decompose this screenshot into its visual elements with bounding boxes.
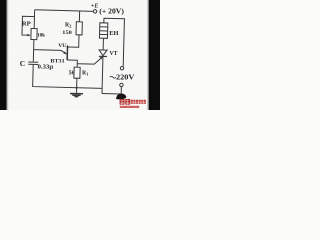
gate arrowhead <box>100 56 103 59</box>
wire RP wiper loop <box>22 16 34 35</box>
svg-text:C: C <box>20 59 25 68</box>
wire UJT B1 to R1/gate node <box>67 60 77 64</box>
terminal A ~220V upper <box>120 66 123 69</box>
resistor R2 top lead <box>78 11 80 22</box>
svg-text:VU1: VU1 <box>58 43 68 49</box>
svg-text:+E: +E <box>91 4 98 10</box>
svg-text:RP: RP <box>22 21 31 28</box>
wire RP bottom lead to node <box>32 40 35 62</box>
resistor R2 <box>76 22 82 35</box>
RP wiper arrowhead <box>27 34 30 36</box>
svg-text:56: 56 <box>69 71 75 77</box>
svg-text:10k: 10k <box>37 33 45 39</box>
thyristor VT cathode bar <box>99 55 107 57</box>
wire thyristor cathode down <box>101 56 104 93</box>
wire RP top lead <box>33 10 35 29</box>
svg-text:220V: 220V <box>116 74 134 82</box>
svg-text:R2: R2 <box>65 22 71 28</box>
capacitor C plates <box>28 62 38 65</box>
resistor R1 bottom lead <box>76 78 78 87</box>
thyristor VT triangle <box>99 50 107 56</box>
wire top rail +E <box>35 10 94 12</box>
resistor R1 top lead <box>76 64 78 67</box>
wire gate to thyristor <box>77 57 102 65</box>
wire C bottom to ground rail corner <box>33 64 103 88</box>
UJT VU base bar <box>66 46 68 60</box>
left black border bar <box>0 0 7 110</box>
terminal +E <box>93 10 96 13</box>
resistor R1 <box>74 67 80 78</box>
potentiometer RP <box>31 29 37 40</box>
heater element EH <box>99 23 107 39</box>
heater EH top wire to terminal A <box>103 18 125 66</box>
svg-text:150: 150 <box>62 30 72 36</box>
terminal B ~220V lower <box>120 83 123 86</box>
wire UJT emitter <box>34 50 67 54</box>
watermark red site name <box>131 100 146 104</box>
junction dot R1 / ground rail <box>75 87 77 89</box>
ground symbol <box>75 88 77 93</box>
watermark logo black blob <box>116 94 127 100</box>
wire cathode to terminal B <box>102 86 121 94</box>
svg-text:VT: VT <box>110 50 119 57</box>
right black border bar <box>149 0 160 110</box>
watermark red seal characters <box>120 99 131 105</box>
wire EH bottom to thyristor anode <box>102 38 104 50</box>
svg-text:EH: EH <box>109 30 118 37</box>
heater EH hatch lines <box>100 27 108 35</box>
wire R2 bottom to UJT B2 <box>67 35 79 48</box>
label ~220V <box>110 76 116 78</box>
svg-text:0.33μ: 0.33μ <box>38 64 54 70</box>
watermark red url <box>120 106 139 108</box>
svg-text:R1: R1 <box>82 71 88 77</box>
svg-text:(+ 20V): (+ 20V) <box>99 9 124 16</box>
UJT emitter arrowhead <box>63 51 67 54</box>
